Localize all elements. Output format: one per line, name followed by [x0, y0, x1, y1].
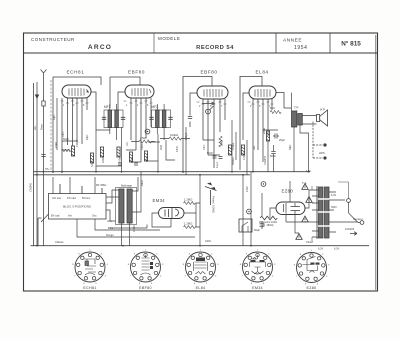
power transformer core: [316, 186, 319, 239]
wire agc V1: [91, 92, 110, 130]
svg-text:0,1µF: 0,1µF: [216, 161, 219, 168]
left frame inner wire: [33, 83, 35, 246]
svg-text:CONSTRUCTEUR: CONSTRUCTEUR: [31, 37, 75, 42]
svg-text:10nF: 10nF: [203, 144, 206, 150]
title block divider 2: [275, 33, 277, 53]
IF transformer MF1 tuned loop: [104, 110, 123, 128]
svg-text:CADRE: CADRE: [29, 183, 33, 192]
capacitor C MF2 left: [149, 117, 153, 119]
title block divider 3: [329, 33, 331, 53]
svg-text:560kΩ: 560kΩ: [231, 157, 235, 165]
svg-text:50nF: 50nF: [207, 151, 213, 155]
svg-text:H.P: H.P: [320, 108, 325, 112]
IF transformer MF2 winding B: [162, 110, 166, 128]
svg-text:220Ω: 220Ω: [101, 157, 105, 163]
svg-text:30pF: 30pF: [289, 144, 292, 150]
svg-text:ECH81: ECH81: [67, 70, 85, 75]
svg-text:T.P.: T.P.: [294, 106, 299, 110]
tuning block rectangle: [49, 194, 107, 220]
test point C: [261, 182, 266, 187]
svg-text:6,3V: 6,3V: [318, 248, 323, 251]
warning triangle 1: [302, 184, 308, 190]
resistor R4: [100, 147, 103, 157]
svg-text:2x490: 2x490: [133, 225, 136, 232]
wire cathode V1: [67, 98, 69, 145]
wire top loop V4: [240, 77, 262, 171]
wire extra v1b: [95, 130, 97, 172]
wire pins V2: [131, 98, 151, 162]
resistor R2 cathode V1: [71, 146, 74, 156]
capacitor C4: [118, 163, 122, 165]
wire EM34 net: [152, 175, 200, 246]
wire triode anode V1: [81, 98, 83, 144]
resistor R14 cathode EL84: [266, 131, 269, 141]
svg-text:Ant.: Ant.: [33, 125, 37, 130]
output transformer primary: [292, 111, 297, 127]
wire rouge: [77, 219, 195, 237]
resistor R8: [129, 152, 132, 162]
svg-text:EL84: EL84: [196, 286, 206, 290]
potentiometer arrows: [207, 183, 216, 190]
resistor R3: [90, 153, 93, 163]
wire to terminals: [313, 122, 323, 159]
wire mains: [349, 203, 361, 223]
socket ECH81 base: [75, 252, 105, 282]
border inner right edge: [375, 35, 377, 290]
svg-text:100Ω: 100Ω: [205, 240, 211, 243]
socket EL84 base: [186, 252, 216, 282]
svg-text:22kΩ: 22kΩ: [54, 142, 58, 148]
svg-text:MODELE: MODELE: [158, 36, 180, 41]
svg-text:Bobinage: Bobinage: [121, 184, 133, 188]
power transformer winding section gaps: [318, 199, 330, 226]
svg-text:10nF: 10nF: [62, 131, 65, 137]
resistor R15 1,2M: [184, 202, 196, 205]
wire grid V4: [243, 93, 249, 140]
power transformer winding B: [325, 187, 330, 238]
svg-text:25µF: 25µF: [279, 138, 285, 142]
test point slash: [210, 106, 214, 110]
wire top of transformer: [311, 186, 313, 242]
svg-text:300Ω: 300Ω: [145, 156, 149, 162]
wire cross h2: [126, 150, 141, 162]
wire EZ80 net: [243, 172, 312, 246]
svg-text:47kΩ: 47kΩ: [176, 146, 179, 152]
svg-text:Châssis: Châssis: [55, 241, 64, 244]
svg-text:N° 815: N° 815: [341, 40, 361, 48]
speaker frame: [317, 115, 320, 122]
svg-text:Potent. 0,5MΩ: Potent. 0,5MΩ: [212, 196, 216, 213]
svg-text:EBF80: EBF80: [201, 70, 218, 75]
svg-text:6,3V: 6,3V: [331, 194, 336, 197]
antenna trimmer: [42, 101, 45, 106]
capacitor C5 50n: [213, 156, 217, 158]
oscillator coil winding B: [127, 189, 132, 223]
output transformer core: [296, 110, 298, 128]
svg-text:6,3V: 6,3V: [306, 170, 311, 173]
tube V4 EL84 envelope: [249, 86, 276, 99]
wire transformer to speaker: [292, 93, 317, 172]
power transformer taps left: [312, 190, 319, 237]
svg-text:ARCO: ARCO: [88, 44, 112, 51]
resistor R7 100k horizontal: [169, 137, 181, 140]
svg-text:Terre: Terre: [40, 124, 44, 130]
svg-text:220Ω: 220Ω: [262, 128, 266, 134]
svg-text:EZ80: EZ80: [282, 189, 294, 194]
tube V1 ECH81 envelope: [62, 85, 91, 98]
svg-text:EM34: EM34: [252, 286, 263, 290]
svg-text:B.Fonc: B.Fonc: [82, 196, 91, 200]
svg-text:0,1µF: 0,1µF: [90, 160, 94, 167]
power transformer winding A: [319, 187, 324, 238]
title block divider 1: [153, 33, 155, 53]
mains terminal 2: [360, 221, 364, 225]
svg-text:Rouge: Rouge: [106, 233, 114, 237]
wire g2 V1: [72, 98, 74, 150]
junction dots: [36, 171, 309, 247]
svg-text:25pF: 25pF: [86, 134, 89, 140]
tube V1 electrodes: [69, 88, 89, 96]
oscillator coil core: [116, 188, 137, 225]
wires into block top: [53, 177, 102, 194]
wire top loop V1: [53, 77, 101, 173]
svg-text:RECORD 54: RECORD 54: [196, 45, 234, 51]
svg-text:EBF80: EBF80: [128, 70, 145, 75]
test point D: [247, 209, 252, 214]
wire cross h1: [62, 141, 77, 150]
wire extra v3b: [231, 120, 233, 172]
capacitor C MF1 left: [102, 117, 106, 119]
wire top loop V3: [183, 77, 212, 174]
tube V4 electrodes: [255, 89, 270, 97]
terminal HPS bottom: [323, 156, 326, 159]
resistor R12 470k: [241, 145, 244, 155]
wire extra v2b: [157, 134, 159, 172]
wire extra v1a: [56, 98, 58, 150]
fuse arrow: [350, 232, 357, 236]
wire extra v3c: [235, 132, 237, 160]
wire pins V4: [253, 99, 272, 172]
wire extra v2c: [166, 140, 175, 160]
border frame: [24, 33, 378, 291]
tube EZ80 envelope: [276, 202, 305, 215]
IF transformer MF2 tuned loop: [152, 110, 171, 128]
svg-text:Bleu: Bleu: [108, 226, 114, 230]
switch lever: [38, 214, 49, 246]
wire MF1 connections: [110, 104, 117, 140]
tube EZ80 electrodes: [284, 203, 301, 214]
bus AVC line: [34, 174, 251, 176]
svg-text:Ant: Ant: [68, 214, 72, 218]
wire MF2 connections: [157, 104, 164, 140]
socket EBF80 base: [131, 252, 161, 282]
svg-text:1,2MΩ: 1,2MΩ: [184, 222, 192, 226]
resistor R13 anode 5k horizontal: [270, 110, 281, 113]
power transformer taps right: [329, 192, 358, 232]
wire bloc vertical extensions: [60, 184, 102, 194]
svg-text:GO tout: GO tout: [52, 196, 61, 200]
wires block to coil: [106, 172, 147, 246]
svg-text:110/220: 110/220: [345, 227, 355, 231]
svg-text:HT+: HT+: [45, 168, 50, 171]
capacitor C grid V3: [188, 117, 192, 119]
capacitor C7 50n: [271, 151, 275, 153]
oscillator coil winding A: [119, 189, 124, 223]
svg-text:470kΩ: 470kΩ: [242, 152, 246, 160]
pin stub ticks V2: [124, 101, 153, 103]
svg-text:BLOC 3 POSITIONS: BLOC 3 POSITIONS: [63, 205, 91, 209]
svg-text:1,2MΩ: 1,2MΩ: [184, 198, 192, 202]
wire cross h4: [96, 161, 158, 166]
svg-text:MF 455kc: MF 455kc: [96, 184, 107, 187]
shield dashed line: [50, 80, 52, 171]
bus HT line: [34, 171, 311, 173]
pin stub ticks V4: [248, 102, 274, 104]
wire extra v4a: [246, 140, 248, 175]
svg-text:150Ω: 150Ω: [141, 144, 144, 150]
svg-text:50µF: 50µF: [254, 228, 260, 232]
svg-text:2MΩ: 2MΩ: [160, 145, 163, 150]
test point B: [206, 109, 211, 114]
resistor R6 47k horizontal: [139, 140, 151, 143]
wire grid V1: [61, 98, 63, 173]
svg-text:Vert: Vert: [107, 219, 112, 223]
svg-text:1MΩ: 1MΩ: [220, 140, 224, 146]
socket EZ80 base: [297, 253, 327, 283]
speaker cone: [320, 110, 328, 126]
svg-text:50kΩ: 50kΩ: [141, 180, 144, 186]
wire anode V1: [86, 98, 88, 110]
warning triangle 4: [296, 234, 302, 240]
tube EM34 envelope: [159, 208, 185, 219]
capacitor C MF2 right: [168, 117, 172, 119]
svg-text:350V: 350V: [331, 206, 337, 209]
svg-text:5kΩ: 5kΩ: [270, 106, 275, 110]
terminal HPS top: [323, 143, 326, 146]
tube V1 anode dot: [87, 91, 89, 93]
capacitor C6 25u: [273, 134, 279, 139]
IF transformer MF2 winding A: [156, 110, 160, 128]
svg-text:PO cad: PO cad: [67, 196, 76, 200]
tube V3 EBF80 envelope: [197, 86, 228, 99]
wire extra v3a: [185, 127, 187, 175]
svg-text:50kΩ: 50kΩ: [130, 157, 134, 163]
svg-text:2x350V: 2x350V: [263, 156, 267, 165]
svg-text:140pF: 140pF: [184, 132, 188, 140]
svg-text:100kΩ: 100kΩ: [170, 133, 178, 137]
capacitor C3: [134, 163, 138, 165]
svg-text:ANNEE: ANNEE: [283, 38, 302, 44]
pin stub ticks V3: [197, 102, 227, 104]
pin stub ticks V1: [61, 101, 89, 103]
svg-text:EZ80: EZ80: [306, 286, 316, 290]
svg-text:1kΩ: 1kΩ: [253, 145, 256, 150]
capacitor antenna lower: [41, 155, 45, 157]
svg-text:50nF: 50nF: [270, 154, 276, 158]
svg-text:Osc: Osc: [92, 214, 97, 218]
resistor R10 vertical zig: [219, 136, 222, 147]
svg-text:BV cad: BV cad: [51, 214, 60, 218]
wire top loop V2: [110, 77, 140, 108]
wire AVC link: [131, 139, 190, 143]
antenna wire 2: [36, 82, 38, 246]
svg-text:EBF80: EBF80: [139, 286, 152, 290]
AVC arrow: [202, 102, 215, 105]
svg-text:6,3V: 6,3V: [334, 248, 339, 251]
IF transformer MF1 winding B: [115, 110, 119, 128]
wire triode grid V1: [76, 98, 78, 142]
resistor R1 22k: [62, 149, 71, 152]
svg-text:1nF: 1nF: [126, 141, 129, 146]
antenna coupling capacitor: [35, 95, 39, 100]
tube V2 EBF80 envelope: [125, 85, 154, 98]
bus chassis line: [31, 245, 370, 247]
resistor R9: [144, 151, 147, 161]
wire EL84 aux: [263, 130, 278, 172]
test point A: [145, 129, 150, 134]
IF transformer MF1 winding A: [108, 110, 112, 128]
wire anode V4 to output transformer: [276, 93, 291, 109]
capacitor C8 2x50u: [260, 221, 265, 229]
resistor R11: [228, 145, 231, 155]
resistor R16 1,2M: [184, 226, 196, 229]
svg-text:100pF: 100pF: [231, 142, 235, 150]
antenna mast: [41, 70, 47, 246]
svg-text:Chauf.: Chauf.: [306, 241, 314, 244]
capacitor C5b 0,1u: [219, 157, 223, 159]
mains terminal 1: [347, 199, 351, 203]
warning triangle 3: [302, 216, 308, 222]
svg-text:EM34: EM34: [153, 198, 166, 203]
wire grid V2: [118, 92, 125, 110]
tube V2 electrodes: [132, 88, 151, 96]
tube EM34 electrodes: [165, 208, 179, 219]
switch box interrupteur: [239, 219, 252, 232]
socket EM34 base: [243, 252, 273, 282]
capacitor C MF1 right: [121, 117, 125, 119]
resistor R5: [117, 147, 120, 157]
wire cross h3: [203, 140, 220, 155]
svg-text:1954: 1954: [294, 45, 308, 51]
svg-text:47kΩ: 47kΩ: [140, 136, 147, 140]
svg-text:100pF: 100pF: [118, 155, 122, 163]
svg-text:HPS: HPS: [319, 151, 325, 155]
wire grid V3: [190, 93, 197, 127]
wire right mains vertical: [338, 182, 349, 199]
warning triangle 2: [306, 197, 312, 203]
svg-text:140pF: 140pF: [75, 139, 79, 147]
tube V3 electrodes: [204, 89, 222, 97]
title block divider bottom: [24, 52, 378, 54]
wire bleu: [95, 219, 160, 230]
svg-text:EL84: EL84: [256, 70, 269, 75]
wire extra v2a: [121, 127, 123, 172]
switch box contacts: [242, 222, 248, 232]
output transformer secondary: [298, 114, 303, 126]
wire pins V3: [203, 99, 225, 168]
resistor R17 protection: [260, 216, 277, 220]
svg-text:215V: 215V: [246, 186, 249, 192]
svg-text:ECH81: ECH81: [83, 286, 96, 290]
potentiometer body: [205, 187, 217, 206]
svg-text:40pF: 40pF: [53, 114, 56, 120]
